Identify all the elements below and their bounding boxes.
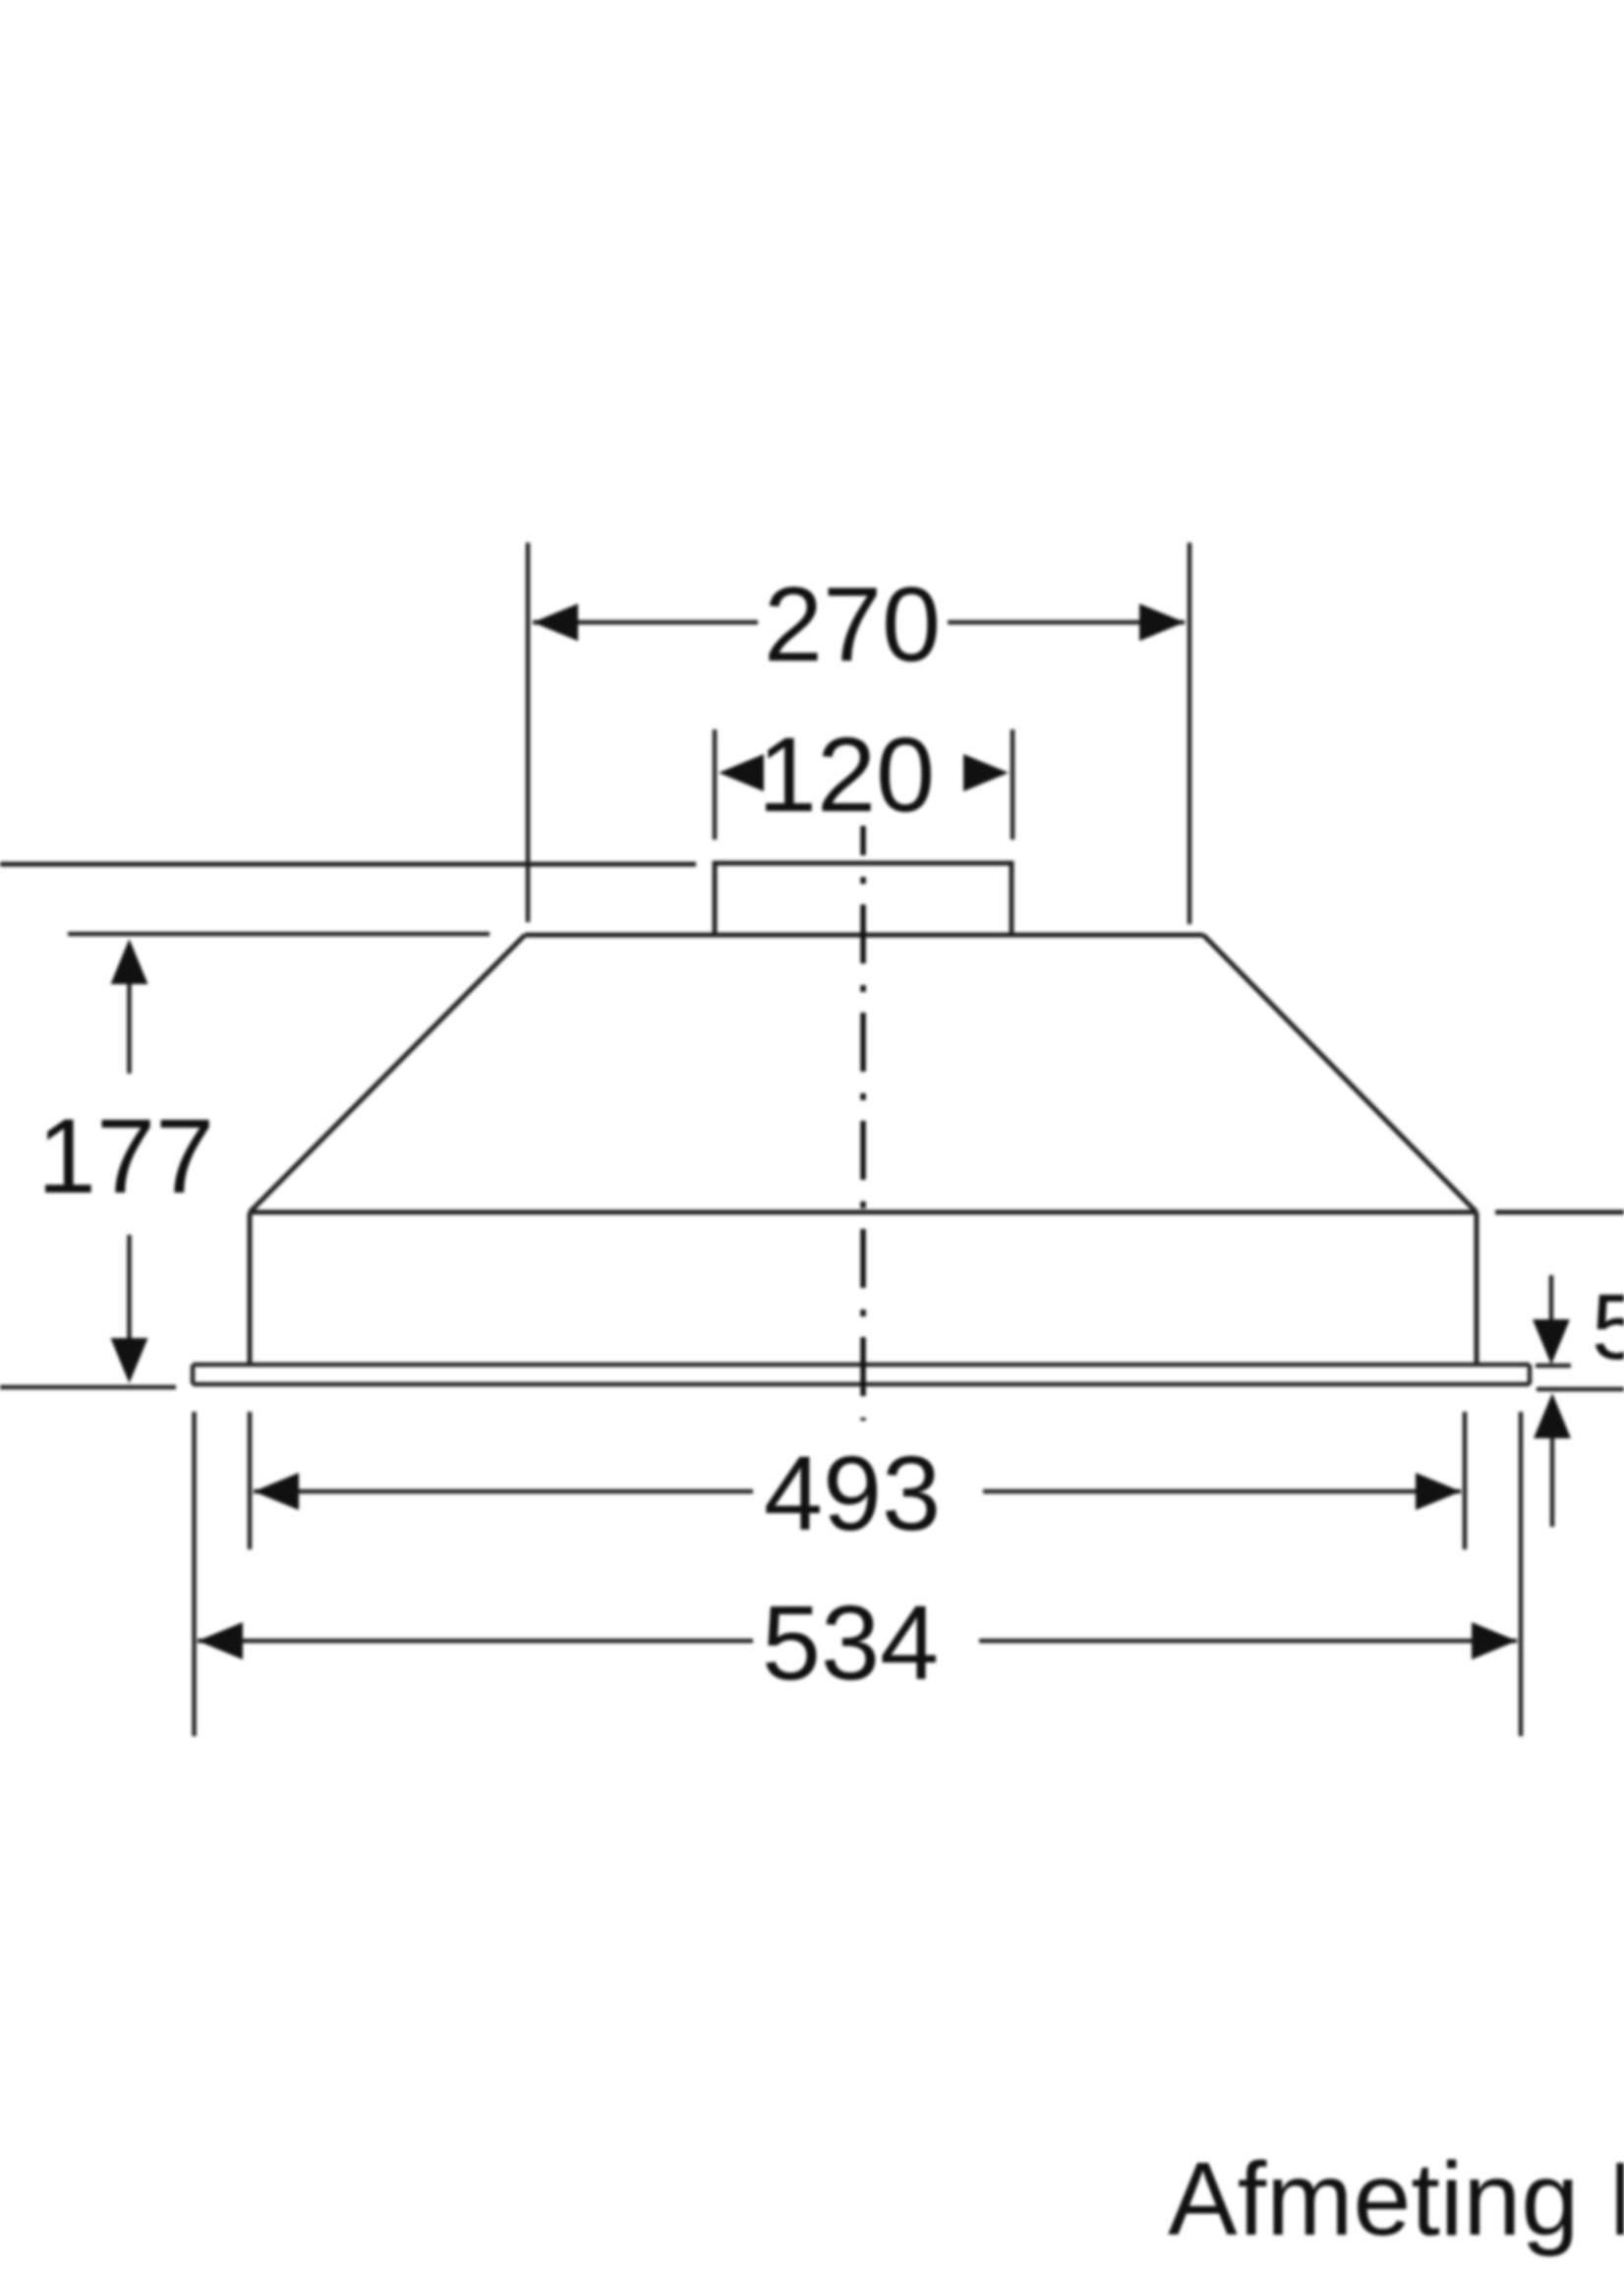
svg-text:120: 120	[758, 715, 935, 834]
svg-text:177: 177	[37, 1096, 214, 1215]
svg-text:5: 5	[1592, 1275, 1624, 1379]
svg-text:534: 534	[762, 1583, 939, 1702]
svg-text:493: 493	[764, 1433, 941, 1552]
svg-text:Afmeting L: Afmeting L	[1168, 2141, 1624, 2257]
svg-text:270: 270	[764, 564, 941, 683]
